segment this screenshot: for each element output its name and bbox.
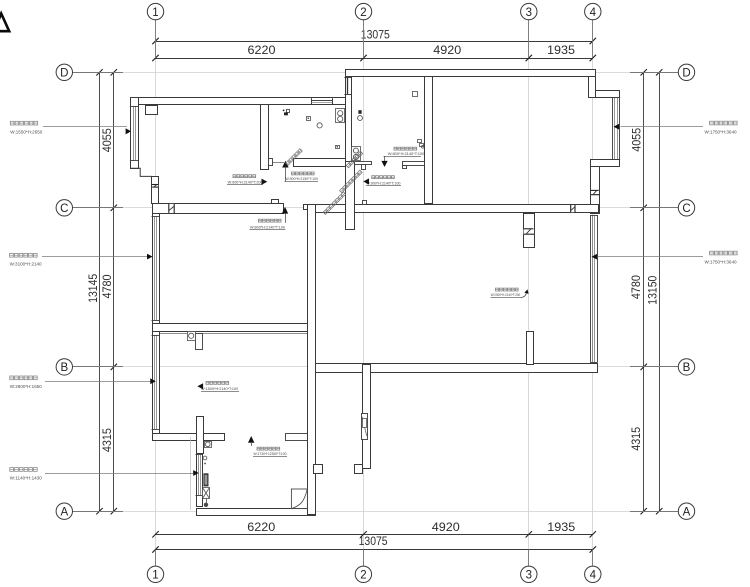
door label living room W:2000*H:2140*T:200	[491, 288, 529, 297]
window bedroom F west	[152, 335, 160, 430]
svg-text:W:900*H:2140*T:100: W:900*H:2140*T:100	[366, 181, 400, 185]
svg-text:A: A	[60, 506, 68, 518]
grid line 1 (vertical)	[155, 20, 157, 566]
wall kitchen/bedroom D	[425, 77, 433, 204]
window label W:1750*H:3640 lower right	[592, 251, 738, 264]
axis bubble stems	[73, 20, 679, 566]
grid line B (horizontal)	[73, 366, 679, 368]
svg-text:D: D	[682, 68, 690, 80]
stub wall below C	[523, 214, 535, 248]
svg-text:W:1140*H:1430: W:1140*H:1430	[10, 476, 43, 481]
svg-text:3: 3	[526, 570, 532, 582]
svg-text:6220: 6220	[247, 520, 275, 534]
svg-text:13075: 13075	[361, 27, 390, 41]
bubble 1 bottom	[147, 566, 163, 582]
bubble 3 top	[521, 3, 537, 19]
svg-text:W:900*H:2150*T:100: W:900*H:2150*T:100	[286, 177, 319, 181]
bubble D right	[678, 64, 694, 80]
bubble 2 top	[355, 3, 371, 19]
bubble 1 top	[147, 3, 163, 19]
bubble 4 bottom	[585, 566, 601, 582]
grid line D (horizontal)	[73, 72, 679, 74]
svg-text:W:1730*H:2350*T:100: W:1730*H:2350*T:100	[254, 452, 287, 456]
svg-text:4780: 4780	[629, 275, 643, 299]
grid line 4 (vertical)	[592, 20, 594, 566]
svg-text:1: 1	[152, 570, 158, 582]
kitchen sink	[358, 110, 363, 120]
svg-text:4055: 4055	[630, 128, 644, 152]
svg-text:W:1750*H:3640: W:1750*H:3640	[705, 259, 738, 264]
hall north wall + jamb	[403, 162, 425, 169]
svg-text:W:2000*H:2140*T:200: W:2000*H:2140*T:200	[491, 293, 521, 297]
svg-text:3: 3	[526, 7, 532, 19]
bay window bedroom D east	[612, 97, 620, 159]
wall between bedrooms E and F	[153, 324, 316, 334]
bubble C right	[678, 200, 694, 216]
top overall dimension 13075	[152, 27, 596, 44]
wall bathroom/kitchen	[346, 77, 352, 166]
door label hall W:900*H:2140*T:100	[363, 176, 401, 186]
window insert court wall	[362, 414, 368, 440]
window label W:1550*H:2650	[10, 121, 131, 134]
west wall jog	[130, 168, 158, 203]
window bedroom A west	[130, 106, 139, 160]
svg-text:C: C	[682, 203, 690, 215]
bathroom drain square 1	[307, 117, 311, 121]
bay window bottom wall	[591, 160, 620, 167]
washer bedroom F	[188, 332, 196, 341]
bay window top wall	[596, 91, 620, 98]
svg-text:4: 4	[590, 570, 597, 582]
bathroom south wall	[269, 159, 346, 167]
grid line A (horizontal)	[73, 511, 679, 513]
grid line 2 (vertical)	[363, 20, 365, 566]
bathroom sink	[336, 109, 345, 123]
C wall right section	[308, 201, 599, 213]
window bedroom E west	[152, 216, 160, 321]
window label W:3100*H:2140	[10, 253, 153, 266]
room H small drain	[203, 456, 207, 464]
window label W:1750*H:3640 upper right	[614, 121, 738, 134]
stub wall above B	[527, 332, 534, 365]
court wall below B	[355, 365, 371, 474]
north wall kitchen + bedroom D	[346, 70, 596, 77]
window bathroom north	[311, 98, 332, 104]
bubble 2 bottom	[355, 566, 371, 582]
C wall left section	[153, 200, 284, 214]
grid line 3 (vertical)	[528, 20, 530, 566]
svg-text:C: C	[60, 203, 68, 215]
right overall dimension 13150	[645, 69, 662, 514]
svg-text:4780: 4780	[100, 274, 114, 298]
left overall dimension 13145	[86, 69, 103, 514]
svg-text:1935: 1935	[547, 43, 575, 57]
room H pole lamp	[204, 498, 208, 507]
west wall bedroom A	[131, 98, 139, 169]
south wall bedroom F	[153, 417, 308, 454]
right segment dimensions 4055/4780/4315	[629, 69, 647, 514]
bubble C left	[56, 200, 72, 216]
svg-text:B: B	[60, 362, 68, 374]
bubble 4 top	[585, 3, 601, 19]
svg-text:4315: 4315	[100, 428, 114, 452]
column at grid 1	[146, 106, 158, 115]
page-fold door symbol	[291, 489, 307, 509]
grid line C (horizontal)	[73, 207, 679, 209]
svg-text:D: D	[60, 68, 68, 80]
bubble D left	[56, 64, 72, 80]
east wall bedroom D	[591, 167, 600, 214]
door label kitchen W:800*H:2140*T:100	[381, 147, 424, 167]
window living room east	[590, 215, 598, 363]
svg-text:W:800*H:2140*T:100: W:800*H:2140*T:100	[388, 152, 425, 156]
bubble A left	[56, 503, 72, 519]
svg-text:1: 1	[152, 7, 158, 19]
svg-text:4920: 4920	[433, 43, 461, 57]
svg-text:4315: 4315	[629, 427, 643, 451]
kitchen fridge	[413, 92, 418, 97]
door label bedroom F W:1500*H:2140*T:100	[197, 381, 239, 391]
svg-text:2: 2	[360, 7, 366, 19]
svg-text:4: 4	[590, 7, 597, 19]
washer room H	[205, 442, 212, 448]
room H water heater	[203, 473, 208, 486]
door label bedroom A W:900*H:2140*T:200	[227, 175, 267, 185]
south wall room H	[197, 509, 316, 516]
wall bedroom A/bathroom	[261, 105, 269, 170]
spine wall foot	[314, 465, 323, 474]
west wall bedroom E	[153, 214, 160, 324]
window label W:2800*H:1650	[10, 376, 156, 389]
aux demolished wall line	[190, 437, 192, 510]
hall pier below kitchen	[346, 162, 355, 230]
svg-text:6220: 6220	[248, 43, 276, 57]
svg-text:W:1750*H:3640: W:1750*H:3640	[705, 129, 738, 134]
bubble B left	[56, 359, 72, 375]
bathroom floor drain	[317, 123, 322, 128]
door label C-wall W:800*H:2140*T:100	[250, 207, 289, 230]
bathroom toilet marker	[283, 110, 290, 116]
window kitchen west	[344, 78, 351, 95]
hall switch cluster	[418, 140, 425, 149]
closet stub bedroom F	[196, 334, 203, 350]
svg-text:W:900*H:2140*T:200: W:900*H:2140*T:200	[228, 180, 263, 184]
beam label hall pier upper	[346, 151, 363, 168]
svg-text:13145: 13145	[86, 274, 100, 303]
B wall living room south	[316, 364, 598, 373]
svg-text:4055: 4055	[100, 128, 114, 152]
beam label bathroom	[286, 149, 303, 166]
window label W:1140*H:1430	[10, 468, 199, 481]
svg-text:1935: 1935	[547, 520, 575, 534]
beam label hall pier lower	[323, 192, 346, 215]
kitchen stove	[352, 147, 361, 161]
bottom overall dimension 13075	[152, 534, 596, 553]
bubble 3 bottom	[521, 566, 537, 582]
north wall bedroom A + bathroom	[131, 98, 346, 105]
svg-text:W:2800*H:1650: W:2800*H:1650	[10, 384, 43, 389]
spine wall x307	[304, 205, 316, 515]
kitchen south wall + jamb	[355, 162, 372, 170]
bottom segment dimensions 6220/4920/1935	[152, 520, 596, 538]
svg-text:W:800*H:2140*T:100: W:800*H:2140*T:100	[250, 225, 285, 229]
svg-text:A: A	[683, 506, 691, 518]
svg-text:13075: 13075	[359, 534, 388, 548]
bathroom drain square 2	[336, 146, 340, 149]
svg-text:13150: 13150	[645, 276, 659, 305]
svg-text:W:1500*H:2140*T:100: W:1500*H:2140*T:100	[201, 387, 238, 391]
door label room H W:1730*H:2350*T:100	[248, 436, 287, 457]
svg-text:W:1550*H:2650: W:1550*H:2650	[10, 129, 43, 134]
room H crossed box	[203, 488, 210, 499]
beam label hall pier middle	[340, 170, 363, 193]
bubble B right	[678, 359, 694, 375]
corner triangle marker	[0, 14, 9, 32]
left segment dimensions 4055/4780/4315	[100, 69, 117, 514]
svg-text:4920: 4920	[432, 520, 460, 534]
svg-text:W:3100*H:2140: W:3100*H:2140	[10, 261, 43, 266]
west wall room H	[197, 454, 203, 507]
svg-text:2: 2	[360, 570, 366, 582]
west wall bedroom F	[153, 332, 160, 434]
top segment dimensions 6220/4920/1935	[152, 43, 596, 61]
bubble A right	[678, 503, 694, 519]
door label bathroom W:900*H:2150*T:100	[282, 161, 318, 182]
NE corner step	[589, 70, 596, 98]
svg-text:B: B	[683, 362, 691, 374]
window room H west	[196, 455, 203, 496]
